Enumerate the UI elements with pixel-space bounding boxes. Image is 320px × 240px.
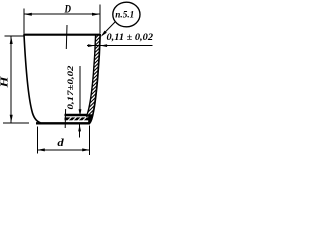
bottom thickness dim arrow lower bbox=[79, 125, 81, 138]
svg-text:0,17±0,02: 0,17±0,02 bbox=[65, 65, 75, 110]
d dimension line bbox=[37, 149, 89, 151]
balloon leader bbox=[102, 22, 115, 36]
D dimension line bbox=[24, 13, 100, 15]
wall thickness dimension line 0,11 bbox=[87, 45, 153, 47]
balloon circle bbox=[113, 2, 140, 27]
H extension line bottom bbox=[3, 122, 29, 124]
wall section inner edge bbox=[86, 35, 95, 117]
H dimension line bbox=[10, 36, 12, 122]
wall hatching bbox=[0, 34, 177, 124]
svg-text:H: H bbox=[0, 75, 11, 89]
svg-text:d: d bbox=[57, 137, 64, 149]
svg-text:п.5.1: п.5.1 bbox=[115, 11, 134, 21]
H extension line top bbox=[5, 35, 24, 37]
cup top rim line bbox=[23, 34, 100, 36]
centerline bbox=[65, 25, 67, 128]
wall to bottom junction bbox=[88, 114, 93, 124]
inner bottom line bbox=[65, 114, 87, 116]
d extension lines bbox=[37, 126, 89, 156]
bottom section fill bbox=[65, 117, 89, 120]
svg-text:D: D bbox=[64, 4, 72, 16]
wall section outer edge bbox=[90, 34, 101, 123]
cup bottom line bbox=[36, 122, 90, 124]
D dimension extension lines bbox=[24, 5, 100, 34]
svg-text:0,11 ± 0,02: 0,11 ± 0,02 bbox=[107, 33, 154, 43]
cup left outline bbox=[24, 35, 41, 123]
bottom thickness dim arrow upper bbox=[79, 66, 81, 116]
